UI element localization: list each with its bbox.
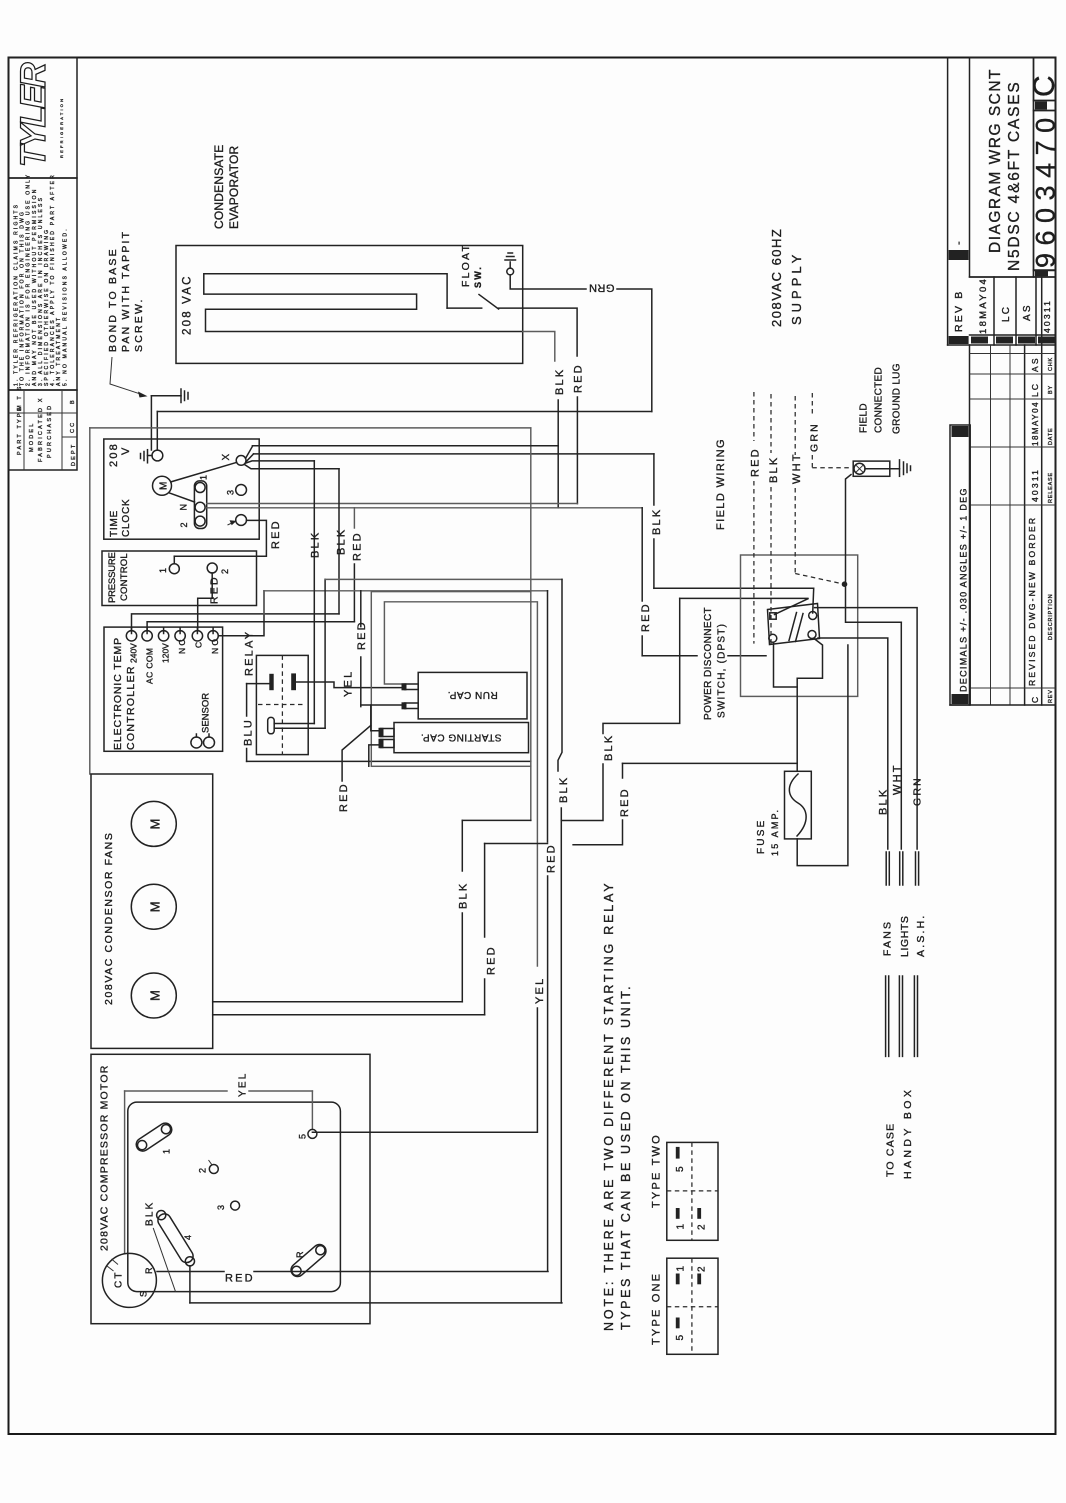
svg-text:2: 2: [198, 1166, 208, 1173]
gray pair wire upper: [207, 503, 578, 505]
svg-text:M: M: [148, 899, 163, 912]
svg-text:BLK: BLK: [878, 788, 890, 815]
svg-text:YEL: YEL: [343, 670, 355, 697]
svg-text:N: N: [179, 502, 189, 511]
svg-text:FIELD WIRING: FIELD WIRING: [715, 438, 727, 530]
svg-text:ANY TREATMENT: ANY TREATMENT: [56, 316, 62, 386]
relay contact left: [269, 674, 273, 690]
svg-text:RED: RED: [270, 519, 282, 549]
svg-text:M: M: [148, 816, 163, 829]
title cell C: [1034, 58, 1056, 101]
wire fans RED branch: [485, 843, 548, 845]
svg-text:AS: AS: [1030, 356, 1040, 372]
svg-text:15 AMP.: 15 AMP.: [770, 808, 780, 856]
svg-text:SENSOR: SENSOR: [201, 693, 212, 733]
svg-text:BLK: BLK: [558, 776, 570, 803]
svg-text:40311: 40311: [1042, 299, 1052, 333]
svg-text:M: M: [159, 479, 170, 490]
svg-text:FABRICATED X: FABRICATED X: [38, 396, 44, 462]
wire junction to starting cap: [371, 705, 379, 731]
run cap terminal tabs: [405, 684, 419, 690]
svg-text:TYPE TWO: TYPE TWO: [651, 1133, 663, 1208]
type one box: [667, 1258, 718, 1354]
time clock terminal strip: [194, 481, 206, 529]
svg-text:GRN: GRN: [912, 776, 924, 806]
svg-text:DESCRIPTION: DESCRIPTION: [1048, 594, 1054, 640]
electronic temp controller box: [104, 627, 223, 751]
svg-text:TYPE ONE: TYPE ONE: [651, 1272, 663, 1345]
wire starting cap lower tab: [369, 745, 381, 766]
svg-text:RED: RED: [338, 782, 350, 812]
wire to terminal 5: [311, 1091, 313, 1129]
run cap box: [418, 672, 527, 719]
svg-text:BLK: BLK: [458, 882, 470, 909]
svg-text:TO CASE: TO CASE: [885, 1123, 897, 1177]
svg-text:REV: REV: [1048, 689, 1054, 703]
wire M to X: [171, 462, 237, 482]
svg-text:1: 1: [199, 473, 209, 480]
wire bond ground down to time clock: [150, 396, 152, 450]
fan motor M3: [131, 973, 176, 1018]
svg-text:2: 2: [220, 567, 230, 574]
svg-text:MODEL: MODEL: [29, 421, 35, 452]
terminal 3: [236, 485, 247, 496]
relay box: [256, 655, 308, 754]
relay contact right: [291, 673, 296, 690]
svg-text:RED: RED: [209, 575, 221, 604]
svg-text:POWER DISCONNECT: POWER DISCONNECT: [703, 607, 714, 720]
wire GRN output: [815, 608, 918, 849]
field wire WHT diagonal to junction: [795, 574, 841, 584]
controller terminals: [126, 631, 136, 641]
wire RED drop from gray pair: [353, 508, 355, 528]
svg-text:GRN: GRN: [589, 282, 615, 294]
evaporator ground terminal: [507, 268, 514, 275]
wire RED down to X2 line: [576, 397, 578, 504]
svg-text:5: 5: [675, 1164, 686, 1172]
svg-text:TYPES THAT CAN BE USED ON THIS: TYPES THAT CAN BE USED ON THIS UNIT.: [619, 984, 633, 1330]
starting cap box: [394, 723, 529, 753]
compressor terminal plate: [128, 1102, 341, 1292]
wire diagonal to RED stub: [342, 725, 371, 781]
terminal 2: [209, 1165, 218, 1174]
svg-text:STARTING CAP.: STARTING CAP.: [421, 732, 502, 743]
heater element: [204, 274, 523, 332]
svg-text:BY: BY: [1048, 385, 1054, 394]
wire fuse bottom loop: [797, 645, 848, 866]
time clock motor M: [153, 476, 172, 495]
relay lower contact: [268, 717, 275, 733]
svg-text:YEL: YEL: [534, 977, 546, 1004]
ground lug symbol: [853, 461, 890, 476]
float switch: [447, 307, 482, 309]
svg-text:TYLER: TYLER: [14, 62, 53, 167]
svg-text:PRESSURE: PRESSURE: [107, 552, 118, 603]
compressor internal winding wire: [124, 1091, 126, 1254]
compressor lug 4: [155, 1211, 195, 1265]
wire left pole bottom to fuse: [774, 642, 798, 687]
svg-text:BLK: BLK: [768, 456, 780, 483]
svg-text:ELECTRONIC TEMP: ELECTRONIC TEMP: [112, 637, 124, 750]
wire G horizontal: [264, 590, 548, 592]
svg-text:REFRIGERATION: REFRIGERATION: [59, 97, 64, 158]
fan motor M1: [131, 801, 176, 846]
wire RED to run cap lower tab: [361, 704, 405, 706]
wire fans RED: [213, 1014, 485, 1016]
svg-text:YEL: YEL: [238, 1071, 249, 1097]
svg-text:240V: 240V: [129, 643, 139, 663]
svg-text:3. ALL DIMENSIONS ARE IN INCHE: 3. ALL DIMENSIONS ARE IN INCHES UNLESS: [38, 196, 44, 386]
wire supply BLK into switch: [654, 588, 814, 613]
wire stubs to case handy box: [885, 976, 887, 1056]
compressor motor box: [91, 1054, 370, 1323]
terminal 3: [231, 1201, 240, 1210]
wire right pole bottom jog: [797, 639, 822, 772]
switch body: [768, 604, 820, 645]
power disconnect switch enclosure: [741, 555, 858, 696]
gray pair wire lower: [207, 507, 643, 509]
part type table: [9, 390, 78, 470]
wire AC COM to RED drop: [147, 622, 354, 631]
leader arrow: [110, 357, 144, 395]
wire WHT output: [900, 622, 902, 849]
wire F to relay: [274, 727, 325, 729]
svg-text:RED: RED: [640, 602, 652, 632]
switch blades: [789, 613, 797, 641]
svg-text:2: 2: [179, 520, 189, 527]
svg-text:TO THE INFORMATION FOR ON THIS: TO THE INFORMATION FOR ON THIS DWG: [20, 210, 26, 386]
svg-text:M: M: [148, 988, 163, 1001]
starting cap tabs: [381, 729, 395, 737]
svg-text:208VAC COMPRESSOR MOTOR: 208VAC COMPRESSOR MOTOR: [99, 1065, 111, 1252]
approval row cells: [970, 276, 1056, 278]
svg-text:1: 1: [158, 566, 168, 573]
wire BLK-c vertical: [558, 579, 562, 771]
svg-text:REV B: REV B: [953, 289, 965, 332]
svg-text:3: 3: [226, 488, 236, 495]
svg-text:40311: 40311: [1030, 468, 1040, 502]
fuse element: [789, 774, 806, 836]
title block frame: [947, 58, 949, 346]
relay dashed lines: [281, 655, 283, 754]
svg-text:CONTROL: CONTROL: [119, 553, 130, 601]
svg-text:RELAY: RELAY: [244, 630, 256, 676]
wire X to BLK2: [245, 465, 340, 469]
field wire WHT dashed: [794, 396, 796, 455]
compressor lug 1: [134, 1121, 175, 1154]
field wire GRN dashed: [811, 393, 813, 415]
svg-text:GROUND LUG: GROUND LUG: [892, 363, 903, 434]
sensor terminals: [191, 737, 202, 748]
wire BLU bottom horizontal: [247, 760, 531, 762]
svg-text:X: X: [221, 452, 232, 461]
wire X1 horizontal: [253, 445, 559, 447]
svg-text:REVISED DWG-NEW BORDER: REVISED DWG-NEW BORDER: [1027, 516, 1037, 686]
wire fans RED vertical: [484, 844, 486, 938]
svg-text:BLK: BLK: [603, 734, 615, 761]
svg-text:2. INFORMATION IS FOR ENGINEER: 2. INFORMATION IS FOR ENGINEERING USE ON…: [26, 173, 32, 386]
field wire RED dashed: [753, 392, 755, 441]
svg-text:N5DSC 4&6FT CASES: N5DSC 4&6FT CASES: [1006, 80, 1023, 271]
wire float switch to RED label: [499, 308, 577, 356]
svg-text:5: 5: [675, 1333, 686, 1341]
wire BLK1 to relay: [274, 723, 314, 725]
svg-text:2: 2: [697, 1264, 708, 1272]
svg-text:RED: RED: [486, 945, 498, 975]
wire RED-b vertical: [547, 591, 549, 842]
wire ground bus down to time clock: [156, 412, 158, 451]
svg-text:BLK: BLK: [554, 368, 566, 395]
svg-text:BLK: BLK: [651, 508, 663, 535]
svg-text:NOTE: THERE ARE TWO DIFFERENT: NOTE: THERE ARE TWO DIFFERENT STARTING R…: [602, 881, 616, 1331]
svg-text:RED: RED: [352, 531, 364, 561]
wire neutral to evap BLK: [531, 445, 558, 447]
svg-text:NO: NO: [210, 637, 220, 654]
svg-text:WHT: WHT: [791, 452, 803, 484]
svg-text:RED: RED: [750, 447, 762, 477]
wire supply BLK drop: [653, 454, 655, 505]
svg-text:GRN: GRN: [809, 422, 821, 452]
wire BLK branch upper: [603, 598, 680, 733]
wire YEL to compressor 5: [312, 1008, 537, 1132]
svg-text:V: V: [120, 445, 132, 455]
terminal X: [236, 456, 246, 466]
svg-text:RED: RED: [619, 787, 631, 817]
svg-text:208VAC 60HZ: 208VAC 60HZ: [769, 228, 784, 327]
terminal 5: [308, 1129, 317, 1138]
svg-text:AND MAY NOT BE USED WITHOUT PE: AND MAY NOT BE USED WITHOUT PERMISSION: [32, 187, 38, 386]
wire GRN to ground bus: [617, 289, 652, 412]
svg-text:LC: LC: [1001, 305, 1012, 322]
svg-text:CONDENSATE: CONDENSATE: [212, 145, 226, 229]
CT overload: [102, 1253, 156, 1307]
wire neutral left vertical: [89, 428, 91, 774]
svg-text:1: 1: [676, 1264, 687, 1272]
wire neutral net vertical: [530, 428, 532, 592]
svg-text:M T S: M T S: [17, 385, 23, 410]
ground bus wire: [157, 411, 652, 413]
svg-text:A.S.H.: A.S.H.: [915, 913, 927, 957]
wire BLK2 vertical: [338, 469, 340, 614]
svg-text:PURCHASED: PURCHASED: [47, 404, 53, 458]
wire fans BLK vertical: [461, 820, 463, 871]
pressure terminal 2: [207, 563, 217, 573]
title text cell DIAGRAM WRG SCNT: [970, 58, 1034, 278]
inner loop wire run cap to YEL: [384, 602, 537, 966]
wire node to 240V junction: [263, 591, 265, 614]
svg-text:DIAGRAM WRG SCNT: DIAGRAM WRG SCNT: [987, 68, 1004, 253]
svg-text:SCREW.: SCREW.: [133, 297, 145, 352]
wire F vertical: [324, 579, 326, 728]
wire BLK1 vertical: [313, 461, 315, 724]
wire BLU to relay contact: [247, 683, 270, 685]
fuse box: [785, 771, 812, 839]
fan motor M2: [131, 884, 176, 929]
revision history table: [969, 345, 971, 705]
dwn cell: [1034, 270, 1056, 277]
svg-text:LIGHTS: LIGHTS: [899, 915, 911, 957]
svg-text:208VAC CONDENSOR FANS: 208VAC CONDENSOR FANS: [103, 832, 115, 1005]
svg-text:FLOAT: FLOAT: [460, 243, 472, 287]
condensor fans box: [91, 774, 213, 1048]
bond ground symbol: [151, 395, 181, 397]
size cell: [1034, 101, 1056, 111]
svg-text:BOND TO BASE: BOND TO BASE: [107, 247, 119, 352]
svg-text:EVAPORATOR: EVAPORATOR: [227, 146, 241, 229]
drawing number 9603470: [1034, 111, 1056, 271]
wire WHT junction down: [846, 584, 902, 622]
svg-text:120V: 120V: [161, 643, 171, 663]
wire BLK compressor horizontal: [190, 1302, 562, 1304]
svg-text:R: R: [295, 1249, 305, 1258]
wire BLK down to X1 junction: [557, 400, 559, 508]
svg-text:PAN WITH TAPPIT: PAN WITH TAPPIT: [120, 230, 132, 352]
junction dot: [842, 581, 848, 587]
svg-text:208 VAC: 208 VAC: [182, 274, 194, 335]
wire switch second input: [680, 598, 809, 614]
svg-text:BLK: BLK: [145, 1200, 156, 1226]
svg-text:3: 3: [216, 1203, 226, 1210]
svg-text:RELEASE: RELEASE: [1048, 472, 1054, 503]
svg-text:AC COM: AC COM: [145, 648, 155, 684]
wire RED fuse drop: [622, 763, 624, 778]
svg-text:BLU: BLU: [243, 718, 255, 746]
wire RED compressor horizontal: [157, 1271, 224, 1273]
svg-text:AS: AS: [1022, 303, 1033, 321]
svg-text:NC: NC: [177, 637, 187, 654]
wire X2 horizontal: [254, 453, 654, 455]
wire GRN from evaporator ground: [510, 275, 586, 289]
condensate evaporator box: [176, 246, 523, 364]
svg-text:DECIMALS +/- .030 ANGLES +/- 1: DECIMALS +/- .030 ANGLES +/- 1 DEG: [959, 487, 969, 692]
notes block cell: [9, 178, 78, 390]
wire fans BLK: [213, 1001, 463, 1003]
svg-text:1: 1: [676, 1222, 687, 1230]
svg-text:CHK: CHK: [1048, 357, 1054, 371]
svg-text:FUSE: FUSE: [756, 819, 767, 854]
svg-text:RED: RED: [573, 363, 585, 393]
wire 240V to BLK2: [132, 614, 340, 631]
wire M to terminal strip: [169, 493, 195, 502]
time clock ground terminal: [152, 450, 163, 461]
wire supply RED into switch: [642, 655, 697, 657]
svg-text:R: R: [144, 1265, 154, 1274]
svg-text:BLK: BLK: [310, 531, 322, 558]
svg-text:1: 1: [162, 1147, 172, 1154]
svg-text:WHT: WHT: [892, 763, 904, 795]
wire pressure 2 to controller C: [198, 573, 213, 630]
field wire BLK dashed: [770, 394, 772, 453]
svg-text:DEPT: DEPT: [71, 443, 77, 466]
decimals tolerance cell: [950, 425, 970, 705]
svg-text:B: B: [70, 398, 76, 404]
switch pole terminals: [770, 613, 776, 619]
wire RED-b to compressor: [547, 876, 549, 1270]
wire X to X2 line: [246, 454, 254, 462]
wire relay to run cap YEL: [296, 682, 403, 688]
wire NO terminal to node: [218, 591, 264, 636]
compressor lug R: [288, 1242, 328, 1279]
svg-text:208: 208: [108, 442, 120, 467]
compressor terminal enclosure box: [371, 592, 531, 767]
wire X to X1 line: [246, 446, 253, 459]
svg-text:18MAY04: 18MAY04: [978, 277, 989, 334]
svg-text:S: S: [139, 1289, 149, 1297]
wire BLK-c horizontal: [325, 578, 562, 580]
svg-text:FIELD: FIELD: [859, 403, 870, 433]
svg-text:LC: LC: [1030, 382, 1040, 397]
svg-text:4: 4: [183, 1233, 193, 1240]
svg-text:CONTROLLER: CONTROLLER: [125, 665, 137, 750]
TYLER logo cell: [9, 58, 78, 179]
svg-text:C: C: [194, 640, 204, 648]
svg-text:-: -: [953, 239, 965, 245]
wire ground lug down: [846, 475, 852, 585]
svg-text:1. TYLER REFRIGERATION CLAIMS: 1. TYLER REFRIGERATION CLAIMS RIGHTS: [14, 203, 20, 386]
wire terminal 4 to pressure control 1: [174, 520, 266, 556]
pressure control box: [102, 551, 257, 606]
svg-text:5: 5: [298, 1132, 308, 1139]
wire RED to fuse top: [623, 762, 798, 764]
svg-text:CLOCK: CLOCK: [121, 499, 132, 537]
type two box: [667, 1142, 718, 1240]
svg-text:RED: RED: [356, 620, 368, 650]
wire BLU: [246, 684, 248, 716]
svg-text:C: C: [1030, 695, 1040, 703]
terminal 4 with arrow: [236, 515, 247, 526]
svg-text:BLK: BLK: [336, 528, 348, 555]
pressure terminal 1: [169, 564, 179, 574]
wire fans BLK top: [462, 819, 531, 821]
wire element to BLK label: [523, 332, 555, 362]
svg-text:RED: RED: [225, 1273, 255, 1285]
wire BLK output: [818, 638, 888, 849]
wire terminal 4 to BLK: [189, 1266, 191, 1303]
wire neutral top horizontal: [90, 427, 531, 429]
svg-text:18MAY04: 18MAY04: [1031, 401, 1040, 446]
svg-text:2: 2: [697, 1222, 708, 1230]
wire X to BLK1: [246, 461, 314, 463]
svg-text:DATE: DATE: [1048, 428, 1054, 445]
svg-text:CONNECTED: CONNECTED: [874, 367, 885, 433]
svg-text:PART TYPE: PART TYPE: [17, 405, 23, 455]
wire BLK branch to switch: [561, 764, 603, 821]
svg-text:HANDY BOX: HANDY BOX: [902, 1087, 914, 1179]
svg-text:4. TOLERANCES APPLY TO FINISHE: 4. TOLERANCES APPLY TO FINISHED PART AFT…: [50, 173, 56, 386]
svg-text:CT: CT: [114, 1270, 125, 1288]
wire BLK-c to compressor: [560, 808, 562, 1303]
svg-text:RUN CAP.: RUN CAP.: [447, 689, 498, 700]
svg-text:SW.: SW.: [473, 265, 483, 288]
svg-text:TIME: TIME: [109, 510, 120, 537]
time clock box: [104, 439, 259, 539]
wire RED mid vertical: [360, 591, 362, 627]
svg-text:5. NO MANUAL REVISIONS ALLOWED: 5. NO MANUAL REVISIONS ALLOWED.: [62, 227, 68, 386]
wire supply RED drop: [641, 508, 643, 601]
svg-text:SPECIFIED OTHERWISE ON DRAWING: SPECIFIED OTHERWISE ON DRAWING: [44, 228, 50, 386]
compressor diagonal wire: [153, 1228, 175, 1292]
svg-text:SWITCH, (DPST): SWITCH, (DPST): [717, 623, 728, 718]
svg-text:SUPPLY: SUPPLY: [789, 251, 804, 325]
svg-text:FANS: FANS: [882, 920, 894, 956]
svg-text:RED: RED: [546, 843, 558, 873]
svg-text:CC: CC: [70, 421, 76, 433]
